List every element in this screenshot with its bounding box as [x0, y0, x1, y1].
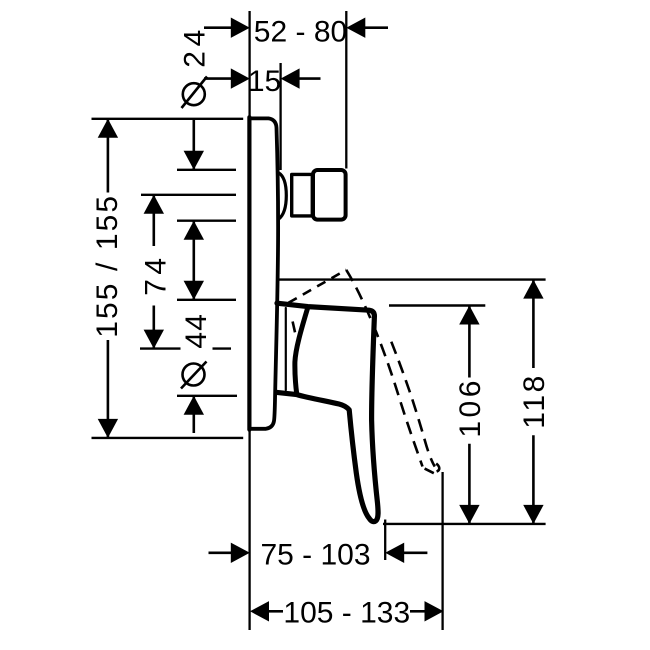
- svg-text:105 - 133: 105 - 133: [283, 596, 410, 629]
- svg-text:155 / 155: 155 / 155: [91, 194, 124, 338]
- svg-text:52 - 80: 52 - 80: [254, 15, 347, 48]
- svg-text:44: 44: [180, 313, 213, 349]
- svg-text:24: 24: [179, 25, 212, 68]
- svg-text:75 - 103: 75 - 103: [260, 539, 370, 572]
- svg-text:74: 74: [139, 253, 172, 295]
- svg-text:106: 106: [454, 377, 487, 438]
- svg-text:15: 15: [248, 65, 281, 98]
- svg-text:118: 118: [518, 373, 551, 429]
